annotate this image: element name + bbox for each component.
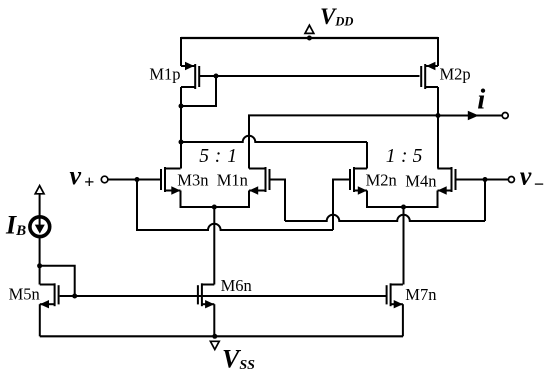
svg-text:1: 1 [386, 146, 396, 167]
svg-text:M2p: M2p [440, 65, 471, 84]
svg-text:M3n: M3n [177, 171, 208, 190]
svg-text:M4n: M4n [405, 172, 436, 191]
svg-text:i: i [477, 84, 485, 116]
svg-text:M6n: M6n [221, 276, 252, 295]
svg-text::: : [401, 146, 408, 167]
svg-text:5: 5 [199, 146, 209, 167]
svg-text:1: 1 [227, 146, 237, 167]
svg-text:M2n: M2n [366, 171, 397, 190]
svg-text:M5n: M5n [9, 285, 40, 304]
svg-text:M7n: M7n [405, 285, 436, 304]
svg-text:5: 5 [413, 146, 423, 167]
svg-text:M1p: M1p [149, 65, 180, 84]
svg-text:M1n: M1n [217, 171, 248, 190]
svg-text::: : [215, 146, 222, 167]
